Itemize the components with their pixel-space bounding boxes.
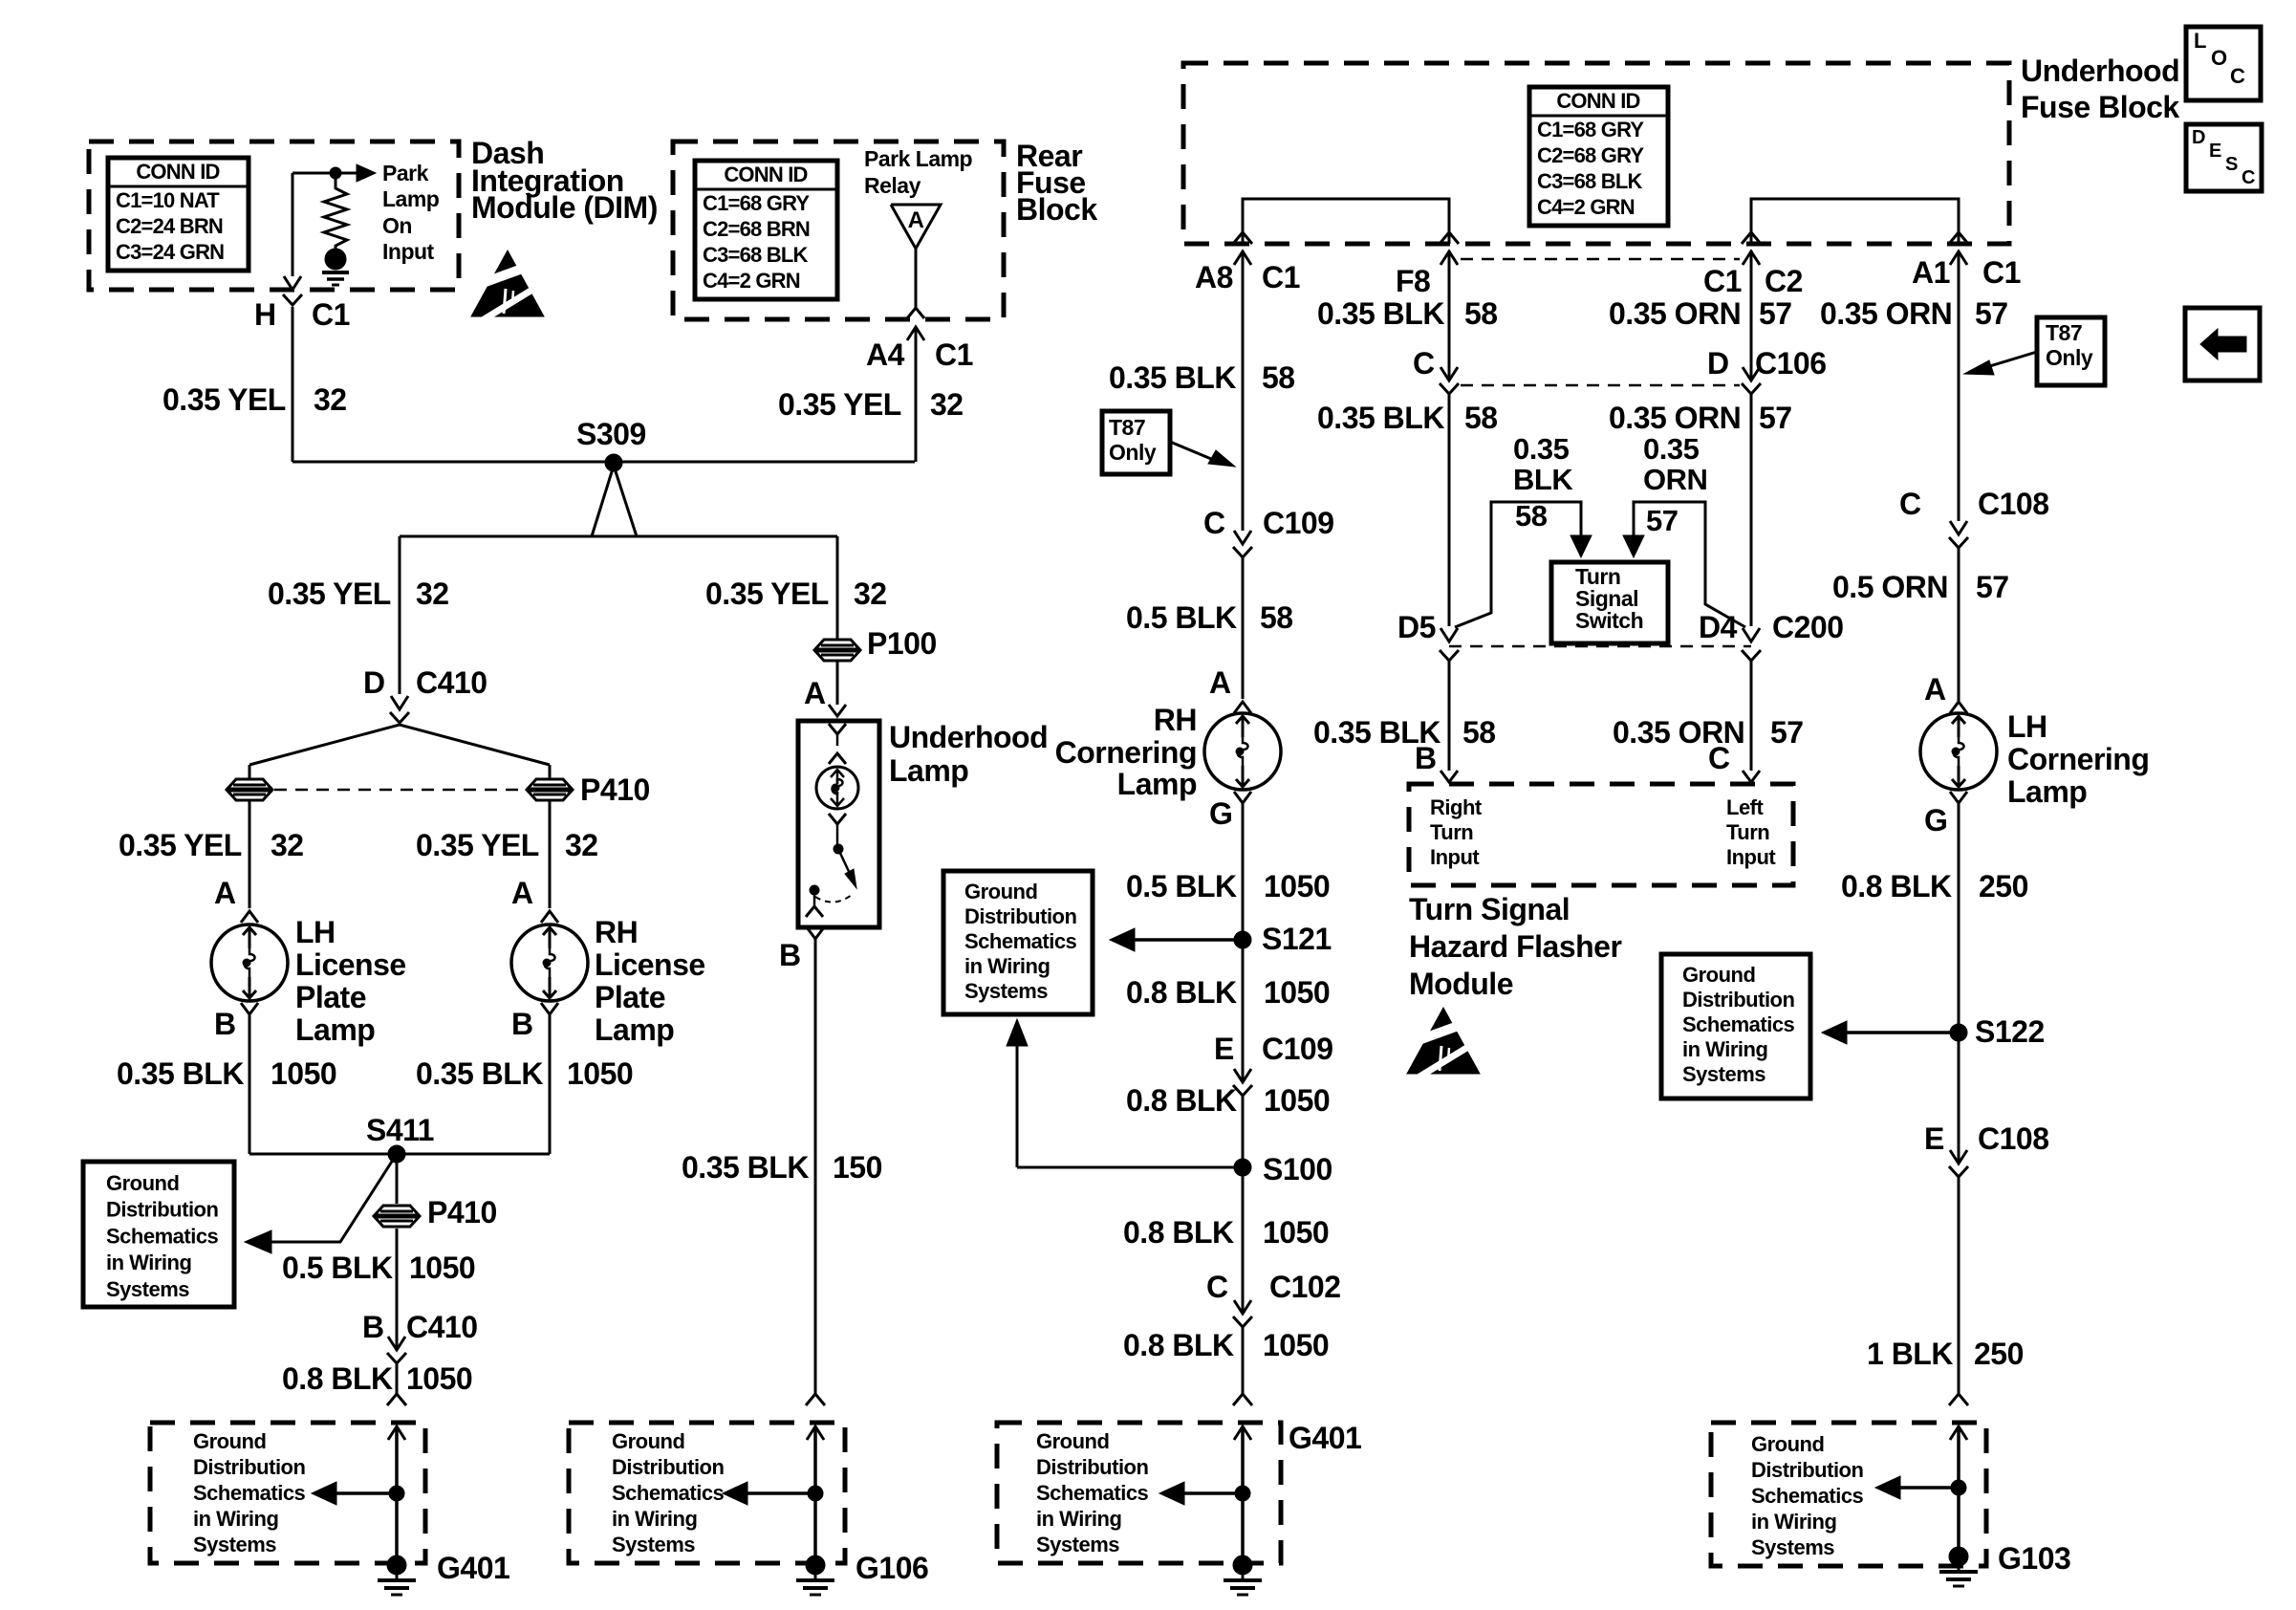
svg-text:Park: Park	[382, 161, 429, 185]
wire: V split to license lamps	[249, 725, 550, 765]
svg-text:RH: RH	[595, 915, 638, 949]
svg-text:Ground: Ground	[106, 1171, 179, 1195]
svg-text:B: B	[1415, 741, 1437, 775]
svg-text:0.35 BLK: 0.35 BLK	[1109, 360, 1236, 395]
svg-text:C1: C1	[1262, 260, 1300, 294]
wire: 0.35 YEL 32 from relay A4 down to S309	[915, 327, 918, 462]
ground entry G401 left	[387, 1394, 406, 1405]
splice: junction in G103 box	[1951, 1480, 1966, 1495]
svg-text:32: 32	[314, 382, 347, 417]
svg-text:0.5 BLK: 0.5 BLK	[282, 1251, 393, 1285]
grommet: P410 left	[227, 779, 272, 800]
wire: 0.35 BLK 58 to right turn input	[1448, 661, 1451, 771]
svg-text:Module: Module	[1409, 967, 1513, 1001]
module: ground distribution dashed box G401 (left)	[150, 1423, 425, 1563]
splice: S309	[605, 454, 622, 471]
symbol: ESD sensitive device (flasher module)	[1407, 1008, 1480, 1074]
svg-text:A8: A8	[1195, 260, 1233, 294]
svg-text:Relay: Relay	[864, 173, 921, 198]
note: Ground Distribution Schematics box (right)	[1661, 954, 1810, 1099]
svg-text:C: C	[1413, 346, 1435, 381]
wire: 0.8 BLK 1050 to S100	[1242, 1096, 1245, 1167]
wire: right branch down to P100	[836, 536, 839, 639]
svg-text:32: 32	[854, 577, 887, 611]
svg-text:Distribution: Distribution	[612, 1455, 724, 1479]
svg-text:0.35 ORN: 0.35 ORN	[1609, 296, 1741, 331]
switch: underhood lamp switch	[829, 814, 846, 824]
wire: S411 bus	[249, 1153, 550, 1156]
module: ground distribution dashed box G103	[1711, 1423, 1986, 1566]
splice: S411	[388, 1145, 405, 1163]
svg-text:Ground: Ground	[193, 1429, 266, 1453]
pin A8 C1 fuse block	[1233, 232, 1252, 244]
svg-text:S122: S122	[1975, 1014, 2045, 1049]
svg-text:Right: Right	[1430, 795, 1483, 819]
icon: LOC box	[2186, 27, 2261, 100]
svg-text:Lamp: Lamp	[1117, 767, 1197, 801]
svg-text:D: D	[2192, 127, 2205, 148]
svg-text:0.5 ORN: 0.5 ORN	[1832, 570, 1948, 604]
ground: G401	[387, 1556, 406, 1575]
wire: left branch down to C410	[399, 536, 401, 694]
svg-text:0.35 BLK: 0.35 BLK	[682, 1150, 809, 1185]
svg-text:G: G	[1924, 803, 1947, 838]
grommet: P410 right	[527, 779, 573, 800]
wire: 0.5 ORN 57 to LH cornering lamp	[1958, 548, 1960, 702]
module: Dash Integration Module (DIM) dashed box	[89, 141, 459, 290]
svg-text:C106: C106	[1755, 346, 1827, 381]
table: Rear Fuse Block CONN ID	[695, 161, 837, 299]
wire: 0.8 BLK 1050 S121 to C109	[1242, 940, 1245, 1082]
svg-text:C108: C108	[1978, 487, 2049, 521]
svg-text:150: 150	[833, 1150, 882, 1185]
svg-text:in Wiring: in Wiring	[193, 1507, 278, 1531]
lamp: LH Cornering Lamp	[1920, 713, 1997, 790]
svg-text:in Wiring: in Wiring	[964, 954, 1050, 978]
svg-text:Systems: Systems	[1751, 1535, 1834, 1559]
svg-text:0.35: 0.35	[1643, 432, 1700, 466]
svg-text:LH: LH	[295, 915, 336, 949]
svg-text:C102: C102	[1269, 1270, 1341, 1304]
splice: junction in G401 box	[389, 1486, 404, 1501]
svg-text:Lamp: Lamp	[889, 753, 968, 788]
svg-text:32: 32	[930, 387, 964, 422]
wire: dashed connector row C-D	[1461, 384, 1740, 387]
svg-text:CONN ID: CONN ID	[136, 160, 219, 184]
svg-text:D5: D5	[1397, 610, 1436, 644]
svg-text:0.35 BLK: 0.35 BLK	[1317, 296, 1444, 331]
arrow: to schematics text (G401 left)	[327, 1491, 397, 1495]
wire: 0.35 BLK 150 to G106	[814, 939, 817, 1394]
svg-text:License: License	[295, 947, 406, 982]
svg-text:Ground: Ground	[612, 1429, 684, 1453]
svg-text:Input: Input	[382, 239, 435, 264]
svg-text:D: D	[363, 665, 385, 700]
resistor: park lamp pull-up in DIM	[324, 173, 347, 250]
pin A4: relay output at box edge	[907, 308, 924, 318]
svg-text:32: 32	[416, 577, 449, 611]
pin C1/C2 fuse block	[1742, 232, 1761, 244]
svg-text:Turn: Turn	[1430, 820, 1473, 844]
ground: G401 middle	[1233, 1556, 1252, 1575]
svg-text:Systems: Systems	[193, 1533, 276, 1556]
svg-text:Distribution: Distribution	[1751, 1458, 1863, 1482]
svg-text:A: A	[214, 876, 236, 910]
wire: fuse block bus right staple	[1751, 199, 1959, 244]
wire: 0.5 BLK 1050 to S121	[1242, 803, 1245, 940]
svg-text:S121: S121	[1262, 922, 1332, 956]
svg-text:Distribution: Distribution	[1036, 1455, 1148, 1479]
arrow: T87 only right to wire	[1983, 352, 2037, 368]
svg-text:Turn: Turn	[1726, 820, 1769, 844]
module: ground distribution dashed box G106	[569, 1423, 845, 1563]
ground: G103	[1949, 1547, 1968, 1566]
svg-text:B: B	[779, 938, 801, 972]
svg-text:Systems: Systems	[106, 1277, 189, 1301]
svg-text:57: 57	[1759, 296, 1792, 331]
node: junction dot in DIM	[330, 167, 341, 179]
svg-text:Distribution: Distribution	[193, 1455, 305, 1479]
svg-text:B: B	[362, 1310, 384, 1344]
svg-text:S: S	[2225, 154, 2238, 175]
pin G: RH cornering lamp	[1234, 792, 1251, 803]
svg-text:License: License	[595, 947, 705, 982]
svg-text:Systems: Systems	[1682, 1062, 1765, 1086]
note: T87 Only box (left)	[1102, 411, 1170, 474]
arrow: to schematics text (G103)	[1891, 1486, 1959, 1490]
svg-text:E: E	[2209, 141, 2221, 162]
svg-text:0.8 BLK: 0.8 BLK	[1123, 1215, 1234, 1250]
svg-text:0.8 BLK: 0.8 BLK	[1841, 869, 1952, 903]
svg-text:C1=10 NAT: C1=10 NAT	[116, 188, 220, 212]
svg-text:B: B	[511, 1007, 533, 1041]
grommet: P410 lower	[374, 1206, 420, 1227]
svg-text:Plate: Plate	[295, 980, 366, 1014]
svg-text:P410: P410	[580, 772, 650, 807]
svg-text:Cornering: Cornering	[2007, 742, 2149, 776]
svg-text:0.35: 0.35	[1513, 432, 1570, 466]
svg-text:Schematics: Schematics	[1682, 1012, 1795, 1036]
svg-text:58: 58	[1464, 401, 1498, 435]
wire: 0.35 YEL 32 to LH license lamp	[249, 800, 251, 908]
svg-text:0.35 YEL: 0.35 YEL	[416, 828, 539, 862]
svg-text:C1: C1	[1703, 264, 1742, 298]
svg-text:Module (DIM): Module (DIM)	[471, 190, 658, 225]
wire: fuse block bus left staple	[1243, 199, 1449, 244]
wire: dashed link between P410 grommets	[274, 789, 525, 792]
svg-text:Block: Block	[1016, 192, 1097, 227]
svg-text:C: C	[1206, 1270, 1228, 1304]
arrow: T87 only to wire	[1170, 442, 1216, 461]
svg-text:C2=68 BRN: C2=68 BRN	[703, 217, 810, 241]
ground entry G103	[1949, 1394, 1968, 1405]
svg-text:0.8 BLK: 0.8 BLK	[1123, 1328, 1234, 1362]
svg-text:Lamp: Lamp	[595, 1012, 674, 1047]
svg-text:C109: C109	[1263, 506, 1334, 540]
svg-text:C1: C1	[312, 297, 350, 332]
splice: S121	[1234, 931, 1251, 948]
arrow: S121 to ground note	[1125, 938, 1243, 942]
svg-text:0.35 YEL: 0.35 YEL	[705, 577, 829, 611]
wire: S309 split diagonals	[592, 466, 614, 536]
svg-text:Only: Only	[1109, 440, 1157, 465]
svg-text:Lamp: Lamp	[2007, 774, 2087, 809]
lamp: LH License Plate Lamp	[211, 925, 288, 1001]
svg-text:C1=68 GRY: C1=68 GRY	[1537, 118, 1644, 141]
wire: S100 branch to ground note arrow	[1017, 1166, 1243, 1169]
svg-text:Cornering: Cornering	[1055, 735, 1197, 770]
table: Underhood Fuse Block CONN ID	[1529, 87, 1668, 226]
svg-text:1050: 1050	[1264, 869, 1330, 903]
svg-text:Underhood: Underhood	[889, 720, 1048, 754]
wire: 0.35 ORN 57 to left turn input	[1750, 661, 1753, 771]
svg-text:H: H	[254, 297, 276, 332]
svg-text:C109: C109	[1262, 1032, 1333, 1066]
svg-text:0.35 YEL: 0.35 YEL	[162, 382, 286, 417]
module: Underhood Fuse Block dashed box	[1183, 63, 2009, 244]
wire: split horizontal to two branches	[400, 535, 837, 538]
svg-text:Schematics: Schematics	[1036, 1481, 1149, 1505]
svg-text:Lamp: Lamp	[295, 1012, 375, 1047]
svg-text:B: B	[214, 1007, 236, 1041]
svg-text:1050: 1050	[406, 1361, 472, 1396]
wire: 0.35 ORN 57 from D to D4	[1750, 394, 1753, 626]
svg-text:1050: 1050	[409, 1251, 475, 1285]
svg-text:C2=68 GRY: C2=68 GRY	[1537, 143, 1644, 167]
svg-text:A: A	[511, 876, 533, 910]
wire: P100 to underhood lamp	[836, 661, 839, 705]
svg-text:in Wiring: in Wiring	[1036, 1507, 1121, 1531]
svg-text:Ground: Ground	[1751, 1432, 1824, 1456]
wire: S309 horizontal bus	[292, 461, 915, 464]
svg-text:0.35 YEL: 0.35 YEL	[268, 577, 391, 611]
wire: 0.35 BLK 58 from C to D5	[1448, 394, 1451, 626]
svg-text:58: 58	[1462, 715, 1496, 750]
wire: 0.8 BLK 1050 to G401 middle	[1242, 1327, 1245, 1394]
svg-text:0.35 ORN: 0.35 ORN	[1820, 296, 1952, 331]
pin B: underhood lamp	[806, 906, 823, 917]
arrow: S122 to ground note	[1837, 1031, 1959, 1034]
svg-text:S411: S411	[366, 1113, 434, 1147]
svg-text:Schematics: Schematics	[612, 1481, 725, 1505]
svg-text:C108: C108	[1978, 1121, 2049, 1156]
svg-text:C200: C200	[1772, 610, 1844, 644]
svg-text:1050: 1050	[1264, 1083, 1330, 1118]
svg-text:1050: 1050	[1263, 1215, 1329, 1250]
symbol: ESD sensitive device (DIM)	[471, 250, 544, 316]
wire: 0.35 BLK 1050 from RH lamp to S411	[549, 1014, 552, 1154]
svg-text:in Wiring: in Wiring	[106, 1251, 191, 1274]
svg-text:Turn Signal: Turn Signal	[1409, 892, 1570, 926]
wire: 0.35 BLK 58 from A8	[1242, 250, 1245, 531]
svg-text:C: C	[2230, 64, 2245, 88]
module: Rear Fuse Block dashed box	[673, 141, 1004, 319]
svg-text:Schematics: Schematics	[193, 1481, 306, 1505]
arrow: S411 to ground distribution note	[270, 1154, 397, 1242]
svg-text:250: 250	[1974, 1337, 2024, 1371]
svg-text:57: 57	[1976, 570, 2009, 604]
svg-text:RH: RH	[1154, 703, 1197, 737]
svg-text:Switch: Switch	[1575, 608, 1643, 633]
svg-text:32: 32	[271, 828, 304, 862]
svg-text:E: E	[1214, 1032, 1234, 1066]
svg-text:Underhood: Underhood	[2021, 54, 2179, 88]
svg-text:C3=68 BLK: C3=68 BLK	[703, 243, 808, 267]
wire: 0.8 BLK 1050 to G401	[396, 1363, 399, 1394]
svg-text:58: 58	[1260, 600, 1293, 635]
svg-text:C: C	[1708, 741, 1730, 775]
pin A1 C1 fuse block	[1949, 232, 1968, 244]
svg-text:A: A	[1924, 672, 1946, 707]
svg-text:0.5 BLK: 0.5 BLK	[1126, 600, 1237, 635]
svg-text:C410: C410	[406, 1310, 478, 1344]
wire: 1 BLK 250 to G103	[1958, 1177, 1960, 1394]
pin H: DIM output arrow at box edge	[284, 276, 301, 290]
svg-text:A: A	[804, 676, 826, 710]
wire: branch from D4 up into turn signal switch	[1634, 502, 1745, 627]
wire: down to ground point	[395, 1493, 399, 1558]
module: ground distribution dashed box G401 (middle)	[997, 1423, 1281, 1563]
svg-text:1050: 1050	[1263, 1328, 1329, 1362]
svg-text:D: D	[1707, 346, 1729, 381]
svg-text:F8: F8	[1396, 264, 1430, 298]
svg-text:A: A	[908, 207, 924, 233]
svg-text:Lamp: Lamp	[382, 186, 440, 211]
note: Ground Distribution Schematics box (left)	[83, 1162, 234, 1307]
note: Ground Distribution Schematics box (middle)	[943, 871, 1093, 1014]
wire: 0.35 YEL 32 from DIM pin H to S309	[292, 307, 294, 462]
arrow: to schematics text (G401 middle)	[1175, 1491, 1243, 1495]
wire: 0.8 BLK continues to E C108	[1958, 1033, 1960, 1164]
ground: G106	[806, 1556, 825, 1575]
svg-text:E: E	[1924, 1121, 1944, 1156]
svg-text:P100: P100	[867, 626, 937, 661]
svg-text:C4=2 GRN: C4=2 GRN	[1537, 195, 1635, 219]
svg-text:Only: Only	[2046, 345, 2093, 370]
svg-text:0.35 BLK: 0.35 BLK	[416, 1056, 543, 1091]
wire: 0.5 BLK 1050	[396, 1229, 399, 1350]
wire: 0.35 BLK 1050 from LH lamp to S411	[249, 1014, 251, 1154]
svg-text:G401: G401	[1289, 1421, 1361, 1455]
lamp: RH License Plate Lamp	[511, 925, 588, 1001]
svg-text:O: O	[2211, 46, 2227, 70]
svg-text:Ground: Ground	[1682, 963, 1755, 987]
svg-text:BLK: BLK	[1513, 463, 1573, 496]
svg-text:C3=24 GRN: C3=24 GRN	[116, 240, 224, 264]
svg-text:C1=68 GRY: C1=68 GRY	[703, 191, 810, 215]
wire: dashed connector row below F8-C2	[1461, 258, 1740, 261]
svg-text:S309: S309	[576, 417, 646, 451]
svg-text:Hazard Flasher: Hazard Flasher	[1409, 929, 1621, 964]
svg-text:C: C	[1899, 487, 1921, 521]
svg-text:1 BLK: 1 BLK	[1867, 1337, 1953, 1371]
wire: DIM internal park lamp input	[292, 173, 294, 276]
svg-text:0.35 BLK: 0.35 BLK	[117, 1056, 244, 1091]
svg-text:A4: A4	[866, 337, 905, 372]
svg-text:0.8 BLK: 0.8 BLK	[1126, 975, 1237, 1010]
icon: back arrow box	[2185, 308, 2260, 381]
svg-text:58: 58	[1262, 360, 1295, 395]
svg-text:Schematics: Schematics	[964, 929, 1077, 953]
svg-text:57: 57	[1646, 504, 1678, 537]
splice: S100	[1234, 1159, 1251, 1176]
svg-text:C1: C1	[935, 337, 973, 372]
svg-text:in Wiring: in Wiring	[612, 1507, 697, 1531]
svg-text:Ground: Ground	[1036, 1429, 1109, 1453]
wire: 0.35 ORN 57 from C1 to D	[1750, 250, 1753, 381]
svg-text:0.35 YEL: 0.35 YEL	[778, 387, 901, 422]
svg-text:On: On	[382, 213, 412, 238]
svg-text:58: 58	[1464, 296, 1498, 331]
ground entry G401 middle	[1233, 1394, 1252, 1405]
svg-text:0.35 BLK: 0.35 BLK	[1317, 401, 1444, 435]
svg-text:G401: G401	[437, 1551, 509, 1585]
svg-text:A: A	[1209, 665, 1231, 700]
svg-text:CONN ID: CONN ID	[724, 163, 807, 186]
svg-text:T87: T87	[1109, 415, 1145, 440]
svg-text:57: 57	[1759, 401, 1792, 435]
pin G: LH cornering lamp	[1950, 792, 1967, 803]
svg-text:P410: P410	[427, 1195, 497, 1229]
arrow: to schematics text (G106)	[738, 1491, 815, 1495]
svg-text:CONN ID: CONN ID	[1556, 89, 1639, 113]
arrow: to Park Lamp On Input text	[336, 172, 358, 175]
lamp: RH Cornering Lamp	[1204, 713, 1281, 790]
note: T87 Only box (right)	[2037, 317, 2105, 385]
svg-text:0.8 BLK: 0.8 BLK	[282, 1361, 393, 1396]
svg-text:250: 250	[1979, 869, 2028, 903]
module: Turn Signal Hazard Flasher Module dashed box	[1409, 784, 1793, 885]
svg-text:S100: S100	[1263, 1152, 1332, 1186]
svg-text:Distribution: Distribution	[1682, 988, 1794, 1012]
connector: chevrons below C200	[1440, 650, 1459, 661]
grommet: P100	[814, 640, 860, 661]
svg-text:1050: 1050	[567, 1056, 633, 1091]
svg-text:G: G	[1209, 796, 1232, 831]
svg-text:Schematics: Schematics	[1751, 1484, 1864, 1508]
svg-text:58: 58	[1515, 499, 1548, 533]
svg-text:Plate: Plate	[595, 980, 665, 1014]
svg-text:in Wiring: in Wiring	[1682, 1037, 1767, 1061]
svg-text:Ground: Ground	[964, 880, 1037, 903]
wire: 0.35 YEL 32 to RH license lamp	[549, 800, 552, 908]
table: DIM CONN ID	[108, 158, 249, 271]
wire: 0.5 BLK 58 to RH cornering lamp	[1242, 557, 1245, 699]
svg-text:57: 57	[1975, 296, 2008, 331]
svg-text:C4=2 GRN: C4=2 GRN	[703, 269, 800, 293]
wire: 0.35 BLK 58 from F8 to C	[1448, 250, 1451, 381]
switch: Turn Signal Switch box	[1551, 562, 1668, 643]
svg-text:Systems: Systems	[612, 1533, 695, 1556]
svg-text:0.8 BLK: 0.8 BLK	[1126, 1083, 1237, 1118]
ground: DIM internal ground ball	[325, 249, 346, 270]
wire: S411 down	[396, 1154, 399, 1204]
svg-text:32: 32	[565, 828, 598, 862]
lamp: underhood lamp bulb	[829, 724, 846, 734]
svg-text:C3=68 BLK: C3=68 BLK	[1537, 169, 1642, 193]
svg-text:T87: T87	[2046, 320, 2082, 345]
svg-text:C2=24 BRN: C2=24 BRN	[116, 214, 223, 238]
wire: 0.35 ORN 57 from A1	[1958, 250, 1960, 521]
svg-text:G103: G103	[1998, 1541, 2070, 1576]
svg-text:A1: A1	[1912, 255, 1950, 290]
module: Underhood Lamp box	[798, 721, 879, 927]
icon: DESC box	[2186, 124, 2262, 191]
svg-text:Left: Left	[1726, 795, 1765, 819]
svg-text:C: C	[2242, 167, 2255, 188]
svg-text:Distribution: Distribution	[106, 1198, 218, 1222]
wire: 0.8 BLK 1050 S100 to C102	[1242, 1167, 1245, 1314]
